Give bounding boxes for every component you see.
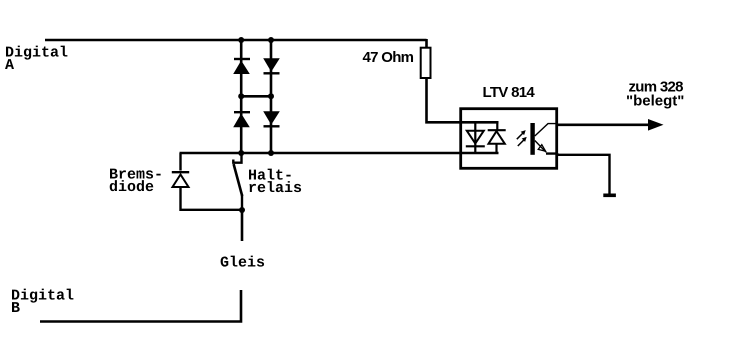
op-amp U1 LTV 814 optocoupler body xyxy=(461,109,557,169)
node junction dot bus-left column xyxy=(238,150,244,156)
svg-text:B: B xyxy=(11,300,20,317)
diode D2 down-pointing top-right xyxy=(263,58,280,73)
svg-text:Gleis: Gleis xyxy=(220,255,265,272)
wire Gleis lower stub xyxy=(40,290,241,322)
diode D3 up-pointing bottom-left xyxy=(233,112,250,127)
label zum 328 belegt xyxy=(626,79,684,110)
node junction dot switch bottom xyxy=(239,207,245,213)
diode D1 up-pointing top-left xyxy=(233,59,250,74)
wire resistor top stub xyxy=(425,39,428,48)
diode D5 brake diode (hollow, up-pointing) xyxy=(172,172,189,187)
node junction dot top-right column xyxy=(268,37,274,43)
label Digital A xyxy=(5,45,68,75)
light arrow 2 xyxy=(518,137,527,146)
diode LED2 up-pointing inside optocoupler xyxy=(488,122,506,153)
wire output bottom to ground xyxy=(546,154,610,194)
wire brake-diode branch lower xyxy=(181,188,243,210)
switch S1 Halt-relais contact xyxy=(233,153,242,210)
wire left diode column xyxy=(240,40,243,153)
diode LED1 down-pointing inside optocoupler xyxy=(466,122,485,153)
wire Digital A top bus xyxy=(45,39,427,42)
wire middle bus to optocoupler xyxy=(180,152,499,155)
diode D4 down-pointing bottom-right xyxy=(263,111,280,126)
svg-text:Digital: Digital xyxy=(11,288,74,305)
ground xyxy=(603,194,616,198)
wire middle crossbar between diode columns xyxy=(241,95,271,98)
transistor Q1 phototransistor xyxy=(530,123,558,155)
svg-text:Digital: Digital xyxy=(5,45,68,62)
wire right diode column xyxy=(270,40,273,153)
svg-text:"belegt": "belegt" xyxy=(626,93,684,110)
svg-text:A: A xyxy=(5,57,14,74)
label Halt-relais xyxy=(248,168,302,198)
wire resistor bottom to optocoupler input xyxy=(427,78,499,122)
wire output top with arrow zum 328 xyxy=(557,119,664,131)
node junction dot top-left column xyxy=(238,37,244,43)
node junction dot bus-right column xyxy=(268,150,274,156)
svg-text:relais: relais xyxy=(248,180,302,197)
resistor R1 47 Ohm xyxy=(421,48,431,78)
light arrow 1 xyxy=(517,130,526,139)
svg-text:diode: diode xyxy=(109,179,154,196)
label Brems-diode xyxy=(109,167,163,197)
label Digital B xyxy=(11,288,74,318)
node junction dot mid-right column xyxy=(268,93,274,99)
svg-text:47 Ohm: 47 Ohm xyxy=(363,49,414,66)
wire brake-diode branch upper xyxy=(179,153,181,171)
wire Gleis upper stub xyxy=(241,210,244,241)
svg-text:LTV 814: LTV 814 xyxy=(483,84,536,101)
node junction dot mid-left column xyxy=(238,93,244,99)
